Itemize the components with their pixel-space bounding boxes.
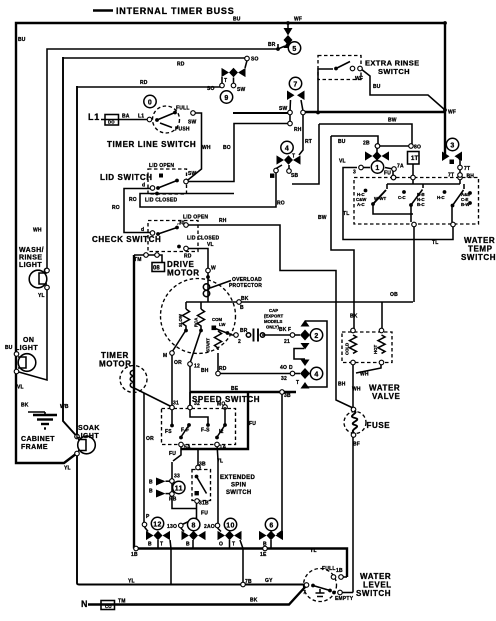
svg-text:T: T (292, 154, 295, 160)
svg-text:WH: WH (202, 145, 211, 151)
svg-text:WF: WF (294, 17, 302, 23)
svg-text:WB: WB (60, 404, 69, 410)
svg-text:L1: L1 (138, 114, 144, 120)
svg-text:FU: FU (201, 511, 208, 517)
svg-text:11: 11 (175, 485, 183, 492)
svg-text:FU: FU (169, 451, 176, 457)
svg-text:31B: 31B (199, 501, 209, 507)
svg-text:LW: LW (219, 322, 226, 327)
svg-text:T: T (232, 542, 235, 548)
svg-text:(EXPORT: (EXPORT (264, 314, 283, 319)
svg-text:5: 5 (292, 46, 296, 53)
svg-text:T: T (296, 380, 299, 386)
svg-text:SPEED SWITCH: SPEED SWITCH (192, 395, 260, 404)
svg-text:SWITCH: SWITCH (461, 253, 496, 262)
svg-text:7L: 7L (217, 459, 223, 465)
svg-text:BF: BF (353, 442, 360, 448)
svg-text:BA: BA (122, 114, 130, 120)
svg-text:MODELS: MODELS (264, 319, 283, 324)
svg-text:O: O (219, 542, 223, 548)
svg-text:W: W (211, 266, 216, 272)
svg-text:WH: WH (33, 228, 42, 234)
svg-text:1T: 1T (411, 156, 419, 162)
svg-text:RD: RD (184, 254, 192, 260)
svg-text:D: D (289, 365, 293, 371)
svg-text:3B: 3B (284, 393, 291, 399)
svg-text:RCA: RCA (194, 318, 199, 327)
svg-text:GY: GY (265, 578, 273, 584)
svg-text:F: F (288, 327, 291, 333)
svg-text:FULL: FULL (176, 106, 190, 112)
svg-text:10: 10 (226, 522, 235, 529)
svg-text:CO: CO (105, 604, 112, 609)
svg-text:BW: BW (318, 215, 327, 221)
svg-text:T: T (160, 542, 163, 548)
svg-text:C-C: C-C (398, 195, 406, 200)
svg-text:TM: TM (118, 599, 126, 605)
svg-text:WH: WH (360, 372, 369, 378)
svg-text:LID SWITCH: LID SWITCH (100, 173, 153, 182)
svg-text:4: 4 (285, 145, 289, 152)
svg-text:FULL: FULL (322, 566, 336, 572)
svg-text:FU: FU (384, 171, 391, 177)
svg-text:d: d (141, 227, 144, 233)
svg-text:32: 32 (194, 401, 200, 407)
svg-text:12: 12 (194, 364, 200, 370)
svg-text:RINSE: RINSE (19, 255, 42, 262)
svg-text:SOAK: SOAK (78, 425, 100, 432)
svg-text:3: 3 (353, 170, 356, 176)
svg-text:12: 12 (153, 521, 162, 528)
svg-text:B: B (149, 480, 153, 486)
svg-text:PROTECTOR: PROTECTOR (229, 283, 262, 289)
svg-text:WH: WH (352, 387, 361, 393)
svg-text:BK: BK (350, 314, 358, 320)
svg-text:BK: BK (21, 403, 29, 409)
svg-text:13O: 13O (167, 524, 177, 530)
svg-text:SO: SO (251, 57, 259, 63)
svg-text:d: d (142, 183, 145, 189)
svg-text:SWITCH: SWITCH (378, 67, 410, 76)
svg-text:T: T (224, 78, 227, 84)
svg-text:BK: BK (241, 296, 249, 302)
svg-text:RH: RH (219, 218, 227, 224)
svg-text:BE: BE (231, 386, 239, 392)
svg-text:BH: BH (467, 174, 475, 180)
svg-text:TIMER LINE SWITCH: TIMER LINE SWITCH (107, 140, 196, 149)
svg-text:MOTOR: MOTOR (167, 269, 200, 278)
svg-text:RD: RD (177, 62, 185, 68)
svg-text:LIGHT: LIGHT (19, 262, 42, 269)
svg-text:1B: 1B (336, 568, 343, 574)
svg-text:BU: BU (373, 84, 381, 90)
svg-text:BU: BU (18, 37, 26, 43)
svg-text:BK: BK (250, 598, 258, 604)
svg-text:33: 33 (174, 474, 180, 480)
svg-text:SW: SW (188, 120, 197, 126)
svg-text:M: M (163, 353, 167, 359)
svg-text:7: 7 (293, 81, 297, 88)
svg-text:SPIN: SPIN (231, 483, 246, 489)
svg-text:YL: YL (64, 466, 71, 472)
svg-text:FUSE: FUSE (367, 421, 391, 430)
svg-text:INTERNAL TIMER BUSS: INTERNAL TIMER BUSS (116, 6, 235, 16)
svg-text:HOT: HOT (373, 345, 378, 354)
svg-text:.30: .30 (177, 221, 185, 227)
svg-text:6: 6 (269, 522, 273, 529)
svg-text:SW: SW (188, 171, 197, 177)
svg-text:B-C: B-C (417, 202, 425, 207)
svg-text:4O: 4O (280, 365, 287, 371)
svg-text:YL: YL (310, 548, 317, 554)
svg-text:FRAME: FRAME (21, 444, 48, 451)
svg-text:B-W: B-W (461, 202, 471, 207)
svg-text:VL: VL (17, 385, 24, 391)
svg-text:B: B (149, 489, 153, 495)
svg-text:7T: 7T (464, 166, 470, 172)
svg-text:21: 21 (284, 339, 290, 345)
svg-text:31: 31 (173, 401, 179, 407)
svg-text:A-C: A-C (357, 202, 365, 207)
svg-text:SLOW: SLOW (178, 313, 183, 327)
svg-text:F-S: F-S (201, 428, 210, 434)
svg-text:EXTENDED: EXTENDED (220, 475, 255, 481)
svg-text:RO: RO (112, 205, 120, 211)
svg-text:RO: RO (129, 197, 137, 203)
svg-text:BW: BW (388, 118, 397, 124)
svg-text:TL: TL (432, 240, 439, 246)
svg-text:BU: BU (338, 139, 346, 145)
svg-text:CHECK SWITCH: CHECK SWITCH (92, 235, 161, 244)
svg-text:YL: YL (128, 579, 135, 585)
svg-text:LIGHT: LIGHT (76, 433, 99, 440)
svg-text:B: B (263, 542, 267, 548)
svg-text:I2: I2 (219, 429, 224, 435)
svg-text:DO: DO (108, 120, 115, 125)
svg-text:BK: BK (279, 327, 287, 333)
svg-text:2: 2 (314, 333, 318, 340)
svg-text:WF: WF (355, 76, 363, 82)
svg-text:0: 0 (148, 99, 152, 106)
svg-text:LID OPEN: LID OPEN (183, 215, 208, 221)
svg-text:F-F: F-F (181, 428, 189, 434)
svg-text:OR: OR (174, 360, 182, 366)
svg-text:N: N (81, 599, 88, 609)
svg-text:B: B (148, 542, 152, 548)
svg-text:BH: BH (201, 368, 209, 374)
svg-text:BR: BR (240, 328, 248, 334)
svg-text:CABINET: CABINET (21, 436, 55, 443)
svg-text:7: 7 (303, 590, 306, 596)
svg-text:VL: VL (339, 159, 346, 165)
svg-text:5A: 5A (184, 445, 191, 451)
svg-text:9: 9 (224, 95, 228, 102)
svg-text:VALVE: VALVE (372, 392, 401, 401)
svg-text:LID CLOSED: LID CLOSED (187, 236, 219, 242)
svg-text:MOTOR: MOTOR (99, 360, 132, 369)
svg-text:WF: WF (448, 110, 456, 116)
svg-text:PUSH: PUSH (175, 127, 190, 133)
svg-text:L1: L1 (88, 112, 100, 122)
svg-text:OB: OB (390, 292, 398, 298)
svg-text:RH: RH (294, 127, 302, 133)
svg-text:BR: BR (268, 42, 276, 48)
svg-text:B: B (240, 305, 244, 311)
svg-text:P: P (146, 514, 150, 520)
svg-text:8: 8 (192, 522, 196, 529)
svg-text:SWITCH: SWITCH (356, 589, 391, 598)
svg-text:7A: 7A (397, 164, 404, 170)
svg-text:RD: RD (219, 366, 227, 372)
svg-text:3B: 3B (199, 462, 206, 468)
svg-text:RO: RO (277, 201, 285, 207)
svg-text:LID OPEN: LID OPEN (149, 163, 174, 169)
svg-text:WASH/: WASH/ (19, 247, 44, 254)
svg-text:SW: SW (237, 87, 246, 93)
svg-text:RT: RT (305, 139, 312, 145)
svg-text:FU: FU (249, 421, 256, 427)
svg-text:LID CLOSED: LID CLOSED (145, 198, 177, 204)
svg-text:TM: TM (134, 257, 142, 263)
svg-text:CAP: CAP (269, 308, 278, 313)
svg-text:ON: ON (23, 337, 34, 344)
svg-text:RD: RD (140, 80, 148, 86)
svg-text:08: 08 (153, 266, 160, 272)
svg-text:1E: 1E (260, 552, 267, 558)
svg-text:1: 1 (375, 165, 379, 172)
svg-text:EMPTY: EMPTY (335, 596, 354, 602)
svg-text:4: 4 (314, 371, 318, 378)
svg-text:TL: TL (343, 211, 350, 217)
svg-text:START: START (206, 338, 211, 352)
svg-text:SB: SB (291, 173, 299, 179)
svg-text:32: 32 (281, 376, 287, 382)
svg-text:2AO: 2AO (204, 524, 215, 530)
svg-text:B: B (186, 542, 190, 548)
svg-text:MO: MO (217, 402, 225, 408)
svg-text:8O: 8O (414, 145, 421, 151)
svg-text:BU: BU (233, 17, 241, 23)
svg-text:SWITCH: SWITCH (226, 490, 251, 496)
svg-text:1A: 1A (220, 445, 227, 451)
svg-text:LIGHT: LIGHT (15, 345, 38, 352)
svg-text:SW: SW (279, 106, 288, 112)
svg-text:3: 3 (450, 142, 454, 149)
svg-text:YL: YL (38, 293, 45, 299)
svg-text:BO: BO (223, 145, 231, 151)
svg-text:W-WT: W-WT (374, 196, 386, 201)
svg-text:RB: RB (169, 497, 177, 503)
svg-text:COLD: COLD (345, 343, 350, 355)
svg-text:2B: 2B (363, 141, 370, 147)
svg-text:FS: FS (165, 429, 172, 435)
svg-text:BU: BU (5, 345, 13, 351)
svg-text:7T: 7T (448, 173, 454, 179)
svg-text:ONLY): ONLY) (266, 325, 280, 330)
svg-text:2: 2 (238, 339, 241, 345)
svg-text:SO: SO (207, 86, 215, 92)
svg-text:BH: BH (338, 382, 346, 388)
svg-text:H-C: H-C (437, 195, 445, 200)
svg-text:1B: 1B (131, 552, 138, 558)
svg-text:7B: 7B (245, 579, 252, 585)
svg-text:VL: VL (207, 242, 214, 248)
svg-text:OR: OR (146, 436, 154, 442)
